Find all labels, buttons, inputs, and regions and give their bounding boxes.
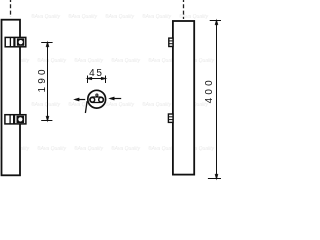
svg-text:190: 190 xyxy=(37,66,48,92)
dimension 400 line xyxy=(208,21,221,179)
outlet port xyxy=(99,97,104,102)
dimension 190 line xyxy=(41,43,52,121)
svg-text:®Ava Quality: ®Ava Quality xyxy=(74,145,104,152)
upper port bracket (side view) xyxy=(169,38,173,46)
svg-text:®Ava Quality: ®Ava Quality xyxy=(105,101,135,108)
svg-text:®Ava Quality: ®Ava Quality xyxy=(37,145,67,152)
centerline (side view) xyxy=(183,0,185,19)
receiver drier body (front view) xyxy=(2,20,21,176)
leader tail xyxy=(85,101,87,113)
flow arrow left xyxy=(75,98,85,101)
svg-text:®Ava Quality: ®Ava Quality xyxy=(142,101,172,108)
flow arrow right xyxy=(110,97,121,100)
upper connector block (front view) xyxy=(5,37,26,46)
receiver drier body (side view) xyxy=(173,21,194,175)
lower port bracket (side view) xyxy=(168,114,173,122)
svg-text:®Ava Quality: ®Ava Quality xyxy=(105,13,135,20)
svg-text:®Ava Quality: ®Ava Quality xyxy=(111,57,141,64)
svg-text:®Ava Quality: ®Ava Quality xyxy=(68,13,98,20)
svg-text:400: 400 xyxy=(204,77,215,103)
port housing outline xyxy=(90,97,104,103)
svg-text:®Ava Quality: ®Ava Quality xyxy=(37,57,67,64)
svg-text:®Ava Quality: ®Ava Quality xyxy=(31,101,61,108)
watermark tile background xyxy=(0,13,215,152)
svg-text:®Ava Quality: ®Ava Quality xyxy=(142,13,172,20)
block detail circle (top view) xyxy=(88,90,106,108)
svg-text:®Ava Quality: ®Ava Quality xyxy=(111,145,141,152)
centerline (front view) xyxy=(10,0,12,17)
svg-text:®Ava Quality: ®Ava Quality xyxy=(31,13,61,20)
svg-text:®Ava Quality: ®Ava Quality xyxy=(74,57,104,64)
inlet port xyxy=(90,98,95,103)
bolt hole xyxy=(96,94,98,96)
dimension 45 line xyxy=(88,76,106,84)
lower connector block (front view) xyxy=(5,115,26,124)
